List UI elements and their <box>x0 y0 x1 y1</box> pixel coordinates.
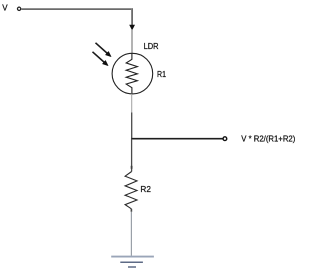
svg-text:V * R2/(R1+R2): V * R2/(R1+R2) <box>241 134 295 143</box>
arrowhead current direction down <box>129 25 135 31</box>
svg-text:V: V <box>2 3 8 12</box>
wire junction down to R2 <box>131 139 133 172</box>
svg-text:R1: R1 <box>157 70 166 79</box>
wire arrow to LDR top <box>131 30 133 54</box>
ground bar 2 <box>120 261 143 263</box>
wire V terminal to corner <box>21 8 131 10</box>
wire to junction lower part <box>131 113 133 139</box>
LDR circle body <box>112 53 153 94</box>
wire corner down to arrow <box>131 8 133 25</box>
LDR light arrow upper <box>96 43 108 54</box>
output terminal (open circle) <box>223 137 227 141</box>
resistor R2 zigzag <box>125 172 137 209</box>
wire R2 bottom to ground <box>130 209 132 212</box>
wire R2 to ground lower <box>130 212 132 256</box>
wire end nub above R2 <box>131 166 133 169</box>
svg-text:LDR: LDR <box>144 42 159 51</box>
resistor R1 zigzag <box>126 54 137 94</box>
LDR light arrow lower <box>93 52 105 63</box>
svg-text:R2: R2 <box>140 185 151 194</box>
wire LDR bottom to junction <box>131 94 133 113</box>
ground bar 1 <box>111 256 154 258</box>
wire junction to output terminal <box>131 138 222 140</box>
terminal V (open circle) <box>17 7 20 10</box>
ground bar 3 <box>128 266 136 268</box>
